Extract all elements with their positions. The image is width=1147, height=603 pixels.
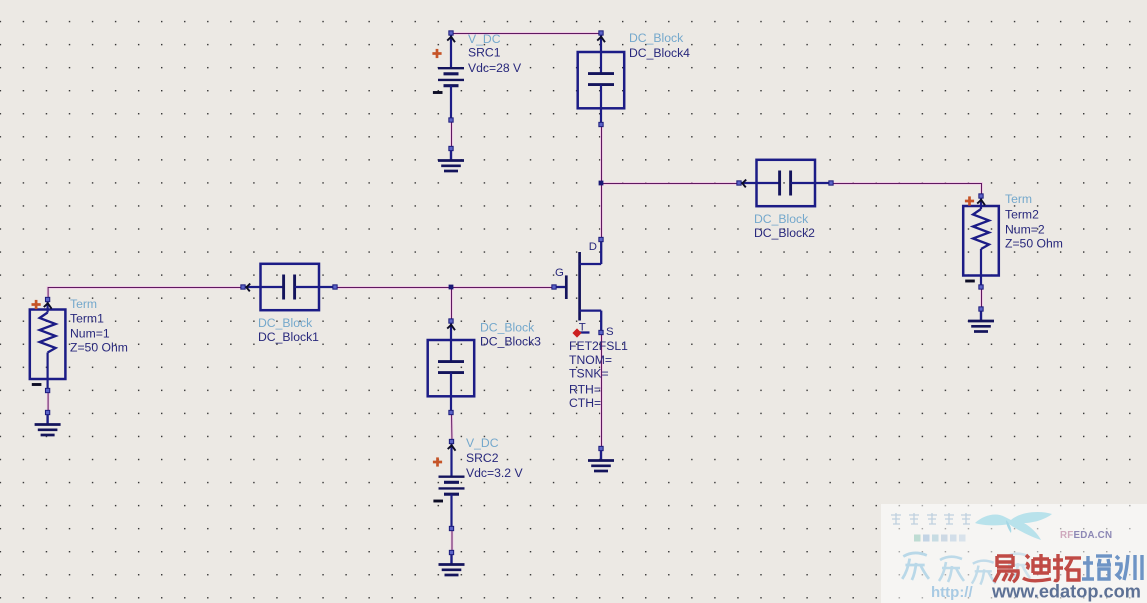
- svg-text:Num=1: Num=1: [70, 327, 110, 341]
- svg-text:S: S: [606, 326, 614, 338]
- wire: node N2 down to DC_Block3: [450, 288, 453, 322]
- wire: SRC1 bottom to ground: [450, 121, 453, 150]
- pin label D: [589, 241, 597, 253]
- svg-text:DC_Block: DC_Block: [754, 212, 809, 226]
- wire: FET source to ground: [600, 333, 603, 449]
- wire: DC_Block2 right pin to Term2: [832, 184, 982, 197]
- svg-text:CTH=: CTH=: [569, 396, 601, 410]
- svg-text:Z=50 Ohm: Z=50 Ohm: [1005, 237, 1063, 251]
- watermark char 培 (blue): [1082, 556, 1112, 579]
- svg-text:V_DC: V_DC: [468, 32, 501, 46]
- watermark faint char 仿: [972, 561, 996, 585]
- label Term1 type: [70, 297, 97, 311]
- label SRC1 name: [468, 46, 501, 60]
- label DC_Block3 type: [480, 321, 535, 335]
- watermark url www.edatop.com: [991, 582, 1141, 602]
- wire: Term1 bottom to ground: [47, 391, 50, 413]
- label Term2 type: [1005, 192, 1032, 206]
- svg-text:SRC2: SRC2: [466, 451, 499, 465]
- svg-text:FET2FSL1: FET2FSL1: [569, 339, 628, 353]
- label DC_Block4 type: [629, 31, 684, 45]
- wire: SRC1 top to DC_Block4 top: [452, 32, 602, 35]
- svg-text:TNOM=: TNOM=: [569, 353, 612, 367]
- value label RTH=: [569, 383, 601, 397]
- svg-text:Vdc=28 V: Vdc=28 V: [468, 61, 522, 75]
- pin label G: [555, 267, 564, 279]
- capacitor DC_Block4 (DC_Block): [578, 31, 625, 127]
- svg-text:T: T: [579, 322, 586, 334]
- label FET name FET2FSL1: [569, 339, 628, 353]
- label DC_Block1 name: [258, 330, 319, 344]
- ground below Term2: [968, 307, 994, 332]
- pin label T: [579, 322, 586, 334]
- value label TNOM=: [569, 353, 612, 367]
- watermark char 拓 (red): [1053, 554, 1081, 581]
- value label CTH=: [569, 396, 601, 410]
- label SRC2 name: [466, 451, 499, 465]
- V_DC source SRC1: [432, 31, 464, 122]
- pin label S: [606, 326, 614, 338]
- ground below FET source: [588, 446, 614, 471]
- watermark faint text 网友上传于: [891, 513, 971, 524]
- watermark faint char 波: [939, 557, 964, 582]
- label DC_Block2 type: [754, 212, 809, 226]
- watermark char 训 (blue): [1115, 555, 1142, 580]
- ground below SRC2: [439, 550, 465, 575]
- wire: DC_Block1 right pin to FET gate: [336, 286, 555, 289]
- svg-text:DC_Block: DC_Block: [480, 321, 535, 335]
- svg-text:SRC1: SRC1: [468, 46, 501, 60]
- label DC_Block4 name: [629, 46, 690, 60]
- svg-text:RFEDA.CN: RFEDA.CN: [1060, 530, 1112, 541]
- svg-text:D: D: [589, 241, 597, 253]
- label SRC2 type: [466, 436, 499, 450]
- watermark bird logo: [975, 512, 1052, 540]
- watermark char 易 (red): [994, 556, 1018, 582]
- watermark char 迪 (red): [1023, 554, 1051, 581]
- watermark faint char 真: [1005, 554, 1030, 579]
- label Term1 name: [70, 312, 104, 326]
- label Term2 name: [1005, 208, 1039, 222]
- capacitor DC_Block3 (DC_Block): [428, 319, 475, 415]
- value label Vdc=28 V: [468, 61, 522, 75]
- svg-text:DC_Block4: DC_Block4: [629, 46, 690, 60]
- svg-text:G: G: [555, 267, 564, 279]
- svg-text:V_DC: V_DC: [466, 436, 499, 450]
- node N1 junction: [599, 181, 604, 186]
- watermark faint char 微: [902, 553, 929, 580]
- svg-text:http://: http://: [931, 584, 973, 601]
- wire: SRC2 bottom to ground: [451, 529, 454, 553]
- svg-text:Z=50 Ohm: Z=50 Ohm: [70, 341, 128, 355]
- wire: Term1 up and right to DC_Block1: [48, 288, 243, 301]
- value label Vdc=3.2 V: [466, 466, 523, 480]
- watermark faint url http://: [931, 584, 973, 601]
- V_DC source SRC2: [433, 439, 465, 530]
- svg-text:Term1: Term1: [70, 312, 104, 326]
- label SRC1 type: [468, 32, 501, 46]
- svg-text:Vdc=3.2 V: Vdc=3.2 V: [466, 466, 523, 480]
- wire: node N1 to DC_Block2 left pin: [602, 182, 740, 185]
- label DC_Block3 name: [480, 335, 541, 349]
- value label Num=2: [1005, 223, 1045, 237]
- capacitor DC_Block1 (DC_Block): [241, 264, 337, 310]
- port Term2 (Term, 50 Ohm): [963, 194, 999, 289]
- capacitor DC_Block2 (DC_Block): [737, 160, 833, 206]
- watermark panel (edatop): [881, 504, 1147, 603]
- wire: Term2 bottom to ground: [980, 288, 983, 310]
- ground below SRC1: [438, 146, 464, 171]
- svg-text:Num=2: Num=2: [1005, 223, 1045, 237]
- value label Z=50 Ohm (Term1): [70, 341, 128, 355]
- wire: DC_Block3 bottom to SRC2 top: [450, 413, 453, 442]
- svg-text:DC_Block: DC_Block: [258, 316, 313, 330]
- svg-text:Term: Term: [70, 297, 97, 311]
- svg-text:TSNK=: TSNK=: [569, 367, 609, 381]
- value label Z=50 Ohm (Term2): [1005, 237, 1063, 251]
- label DC_Block1 type: [258, 316, 313, 330]
- wire: node N1 down to FET drain: [600, 184, 603, 241]
- watermark small icons row: [914, 535, 966, 542]
- value label TSNK=: [569, 367, 609, 381]
- node N2 junction: [449, 285, 454, 290]
- port Term1 (Term, 50 Ohm): [30, 297, 66, 392]
- svg-text:Term: Term: [1005, 192, 1032, 206]
- svg-text:DC_Block3: DC_Block3: [480, 335, 541, 349]
- svg-text:DC_Block1: DC_Block1: [258, 330, 319, 344]
- value label Num=1: [70, 327, 110, 341]
- wire: DC_Block4 bottom to node N1: [600, 125, 603, 184]
- svg-text:DC_Block2: DC_Block2: [754, 226, 815, 240]
- svg-text:RTH=: RTH=: [569, 383, 601, 397]
- watermark text RFEDA.CN: [1060, 530, 1112, 541]
- transistor FET2FSL1 (FET): [552, 237, 603, 337]
- svg-text:Term2: Term2: [1005, 208, 1039, 222]
- ground below Term1: [35, 410, 61, 435]
- label DC_Block2 name: [754, 226, 815, 240]
- svg-text:www.edatop.com: www.edatop.com: [991, 582, 1141, 602]
- svg-text:DC_Block: DC_Block: [629, 31, 684, 45]
